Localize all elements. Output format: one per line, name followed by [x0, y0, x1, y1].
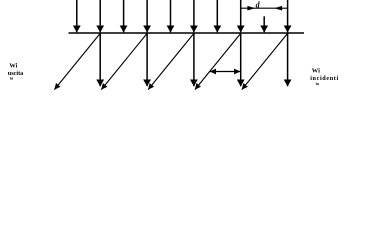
- diffracted arrow 4: [195, 33, 241, 89]
- grating surface line: [69, 32, 305, 34]
- transmitted arrow 3: [193, 34, 195, 87]
- svg-text:Wi: Wi: [312, 68, 320, 75]
- incident wave arrow 6: [193, 0, 195, 32]
- incident wave arrow 2: [99, 0, 101, 32]
- incident wave arrow 7: [216, 0, 218, 32]
- dimension d line: [241, 7, 287, 9]
- incident wave arrow 4: [146, 0, 148, 32]
- svg-text:incidenti: incidenti: [310, 75, 339, 82]
- diffracted arrow 1: [54, 33, 100, 89]
- svg-text:ta: ta: [10, 75, 13, 80]
- incident wave arrow 1: [76, 0, 78, 32]
- incident wave arrow 5: [170, 0, 172, 32]
- diffracted arrow 2: [101, 33, 147, 89]
- svg-text:ta: ta: [316, 81, 319, 86]
- incident wave arrow 10: [287, 0, 289, 32]
- dimension d right arrowhead: [274, 6, 282, 11]
- spacing dimension double arrow: [210, 71, 240, 73]
- transmitted arrow 2: [146, 34, 148, 87]
- transmitted arrow 5: [287, 34, 289, 87]
- incident wave arrow 8: [240, 0, 242, 32]
- dimension d left arrowhead: [247, 6, 255, 11]
- svg-text:Wi: Wi: [9, 63, 17, 70]
- incident wave arrow 3: [123, 0, 125, 32]
- incident wave arrow 9 (short, below dimension): [263, 16, 265, 32]
- diffracted arrow 5: [242, 33, 288, 89]
- transmitted arrow 4: [240, 34, 242, 87]
- diffracted arrow 3: [148, 33, 194, 89]
- transmitted arrow 1: [99, 34, 101, 87]
